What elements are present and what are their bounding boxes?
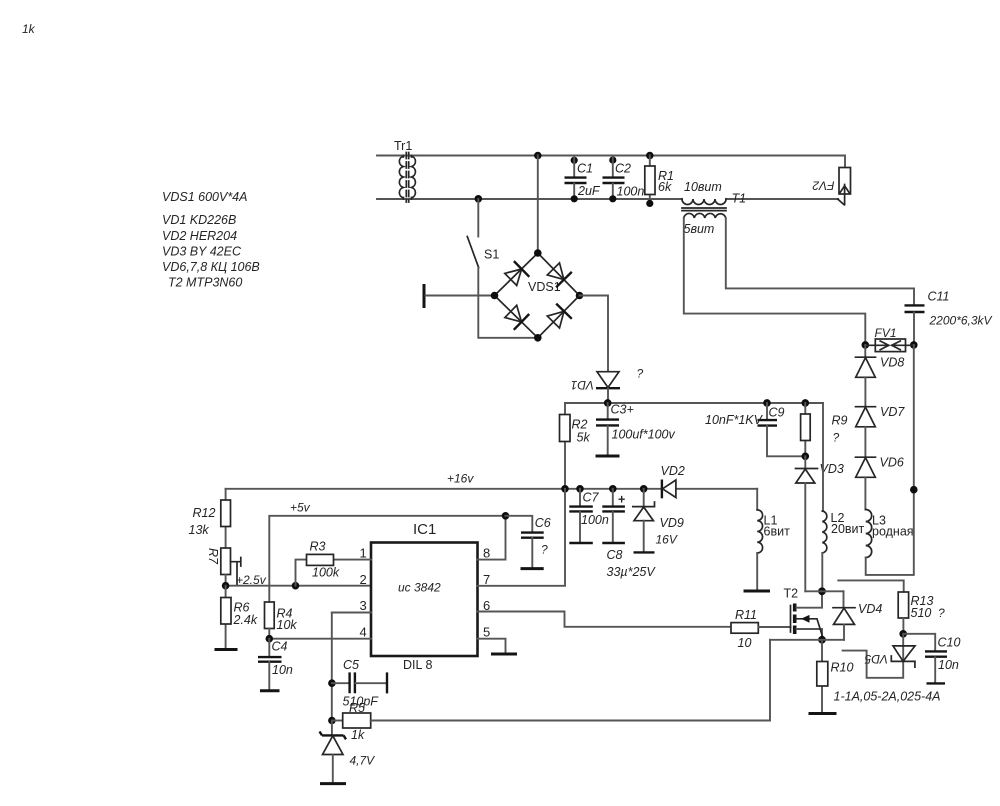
svg-text:13k: 13k bbox=[189, 523, 210, 537]
capacitor C1 bbox=[565, 156, 601, 203]
diode VD1 bbox=[571, 372, 620, 403]
pin 2 bbox=[360, 572, 367, 587]
svg-text:VD5: VD5 bbox=[864, 652, 888, 666]
svg-text:R10: R10 bbox=[831, 661, 854, 675]
svg-text:C6: C6 bbox=[535, 516, 551, 530]
svg-text:+: + bbox=[618, 493, 625, 507]
diode VD3 bbox=[796, 456, 844, 591]
svg-text:родная: родная bbox=[872, 525, 914, 539]
svg-text:R12: R12 bbox=[193, 506, 216, 520]
transformer Tr1 bbox=[394, 139, 415, 202]
svg-text:C9: C9 bbox=[769, 406, 785, 420]
svg-text:C7: C7 bbox=[583, 491, 600, 505]
bridge diode upper-left bbox=[505, 261, 530, 285]
pin 7 wire to +16v bbox=[478, 489, 566, 587]
svg-text:6: 6 bbox=[483, 598, 490, 613]
bridge diode lower-right bbox=[547, 304, 572, 328]
wire +2.5v to pin2 bbox=[222, 573, 371, 590]
svg-text:1k: 1k bbox=[351, 728, 365, 742]
svg-text:5k: 5k bbox=[577, 431, 591, 445]
svg-text:T1: T1 bbox=[732, 192, 747, 206]
svg-text:4: 4 bbox=[360, 625, 367, 640]
ground R6 bbox=[215, 648, 238, 651]
potentiometer R7 bbox=[206, 548, 241, 586]
svg-text:R3: R3 bbox=[310, 540, 326, 554]
note question mark R13 bbox=[938, 606, 945, 620]
svg-text:VD2 HER204: VD2 HER204 bbox=[162, 229, 237, 243]
wire T1 secondary left lead down bbox=[684, 218, 866, 345]
resistor R12 bbox=[189, 489, 231, 548]
svg-text:?: ? bbox=[637, 367, 644, 381]
diode VD8 bbox=[856, 345, 905, 407]
resistor R9 bbox=[801, 403, 848, 460]
wire DC bus node bbox=[565, 399, 823, 407]
svg-text:VD1 KD226B: VD1 KD226B bbox=[162, 213, 236, 227]
svg-text:C1: C1 bbox=[577, 162, 593, 176]
svg-text:20вит: 20вит bbox=[831, 522, 865, 536]
spark gap FV1 bbox=[862, 326, 918, 352]
svg-text:C5: C5 bbox=[343, 658, 359, 672]
svg-text:5вит: 5вит bbox=[684, 222, 715, 236]
svg-text:R9: R9 bbox=[832, 414, 848, 428]
svg-text:R5: R5 bbox=[349, 701, 365, 715]
svg-text:C8: C8 bbox=[607, 548, 623, 562]
node right rail bbox=[910, 486, 918, 494]
diode VD6 bbox=[856, 456, 904, 510]
pin 6 wire bbox=[478, 598, 732, 627]
svg-text:VD1: VD1 bbox=[571, 378, 594, 392]
svg-text:+5v: +5v bbox=[290, 501, 311, 515]
inductor L3 bbox=[866, 510, 914, 558]
zener VD5 4.7V bbox=[320, 721, 376, 783]
resistor R1 bbox=[645, 152, 674, 207]
transistor T2 MOSFET bbox=[784, 587, 823, 640]
ground VD5 bbox=[320, 782, 346, 785]
pin 4 bbox=[269, 625, 371, 640]
svg-text:100n: 100n bbox=[617, 185, 645, 199]
svg-text:7: 7 bbox=[483, 572, 490, 587]
zener VD9 bbox=[633, 489, 684, 553]
arrester FV2 bbox=[812, 156, 850, 205]
resistor R5 bbox=[332, 701, 371, 742]
svg-text:2: 2 bbox=[360, 572, 367, 587]
pin 1 bbox=[334, 546, 372, 561]
inductor L1 bbox=[757, 510, 790, 553]
svg-text:FV1: FV1 bbox=[875, 326, 897, 340]
resistor R13 bbox=[898, 592, 933, 638]
svg-text:?: ? bbox=[541, 543, 548, 557]
svg-text:VD6: VD6 bbox=[880, 456, 904, 470]
ground L1 bbox=[744, 553, 771, 591]
wire AC bottom bbox=[377, 198, 838, 200]
capacitor C9 bbox=[705, 403, 805, 456]
capacitor C10 bbox=[903, 634, 960, 684]
svg-text:VD7: VD7 bbox=[880, 405, 905, 419]
svg-text:10вит: 10вит bbox=[684, 180, 722, 194]
parts list note bbox=[162, 190, 260, 290]
node T2 source bbox=[770, 636, 844, 644]
inductor L2 bbox=[822, 511, 864, 553]
wire L3 bottom to right rail bbox=[866, 345, 914, 575]
svg-text:R7: R7 bbox=[206, 548, 220, 565]
capacitor C8 bbox=[602, 489, 656, 579]
resistor R11 bbox=[731, 608, 791, 650]
resistor R3 bbox=[296, 540, 340, 586]
pin 5 ground bbox=[478, 625, 518, 655]
wire stub to R13 bbox=[838, 580, 903, 592]
T1 core bbox=[682, 208, 726, 211]
terminal bar left bbox=[424, 284, 495, 308]
wire bridge right output bbox=[580, 296, 609, 372]
T1 secondary 5vit bbox=[684, 213, 726, 236]
svg-text:8: 8 bbox=[483, 546, 490, 561]
svg-text:4,7V: 4,7V bbox=[350, 754, 376, 768]
diode VD4 bbox=[833, 591, 882, 640]
svg-text:10n: 10n bbox=[938, 658, 959, 672]
note 1-1A bbox=[834, 690, 941, 704]
svg-text:100k: 100k bbox=[312, 566, 340, 580]
bridge diode upper-right bbox=[547, 263, 572, 287]
IC U1 uc3842 box bbox=[371, 521, 478, 672]
capacitor C2 bbox=[603, 156, 645, 203]
svg-text:2200*6,3kV: 2200*6,3kV bbox=[929, 314, 993, 328]
svg-text:10nF*1KV: 10nF*1KV bbox=[705, 413, 764, 427]
svg-text:+16v: +16v bbox=[447, 472, 474, 486]
svg-text:C2: C2 bbox=[615, 162, 631, 176]
node top wire / bridge tap bbox=[534, 152, 542, 160]
wire top wire to bridge bbox=[537, 156, 539, 254]
resistor R10 bbox=[817, 640, 854, 712]
svg-text:1k: 1k bbox=[22, 22, 36, 36]
diode VD2 bbox=[661, 464, 685, 498]
ground R10 bbox=[809, 712, 837, 715]
svg-text:T2: T2 bbox=[784, 587, 799, 601]
svg-text:R11: R11 bbox=[735, 608, 757, 622]
svg-text:1: 1 bbox=[360, 546, 367, 561]
svg-text:VD3 BY 42EC: VD3 BY 42EC bbox=[162, 245, 242, 259]
capacitor C5 bbox=[332, 658, 387, 709]
svg-text:VD4: VD4 bbox=[858, 602, 882, 616]
note 1k bbox=[22, 22, 36, 36]
resistor R4 bbox=[265, 602, 298, 643]
pin 8 bbox=[478, 516, 506, 561]
svg-text:VD2: VD2 bbox=[661, 464, 685, 478]
svg-text:100uf*100v: 100uf*100v bbox=[612, 428, 676, 442]
svg-text:10: 10 bbox=[738, 636, 752, 650]
pin 3 bbox=[332, 598, 371, 613]
capacitor C3 bbox=[596, 403, 676, 457]
capacitor C11 bbox=[905, 290, 993, 346]
svg-text:S1: S1 bbox=[484, 248, 499, 262]
resistor R2 bbox=[560, 403, 591, 489]
transformer T1 primary 10vit bbox=[682, 180, 746, 206]
switch S1 bbox=[467, 195, 538, 338]
wire pin3 column bbox=[328, 613, 336, 725]
svg-text:C3+: C3+ bbox=[611, 403, 634, 417]
svg-text:5: 5 bbox=[483, 625, 490, 640]
wire T1 secondary right lead to C11 bbox=[726, 218, 914, 305]
svg-text:FV2: FV2 bbox=[812, 179, 834, 193]
wire R5 to current sense bbox=[371, 640, 770, 721]
svg-text:6k: 6k bbox=[658, 180, 672, 194]
svg-text:DIL 8: DIL 8 bbox=[403, 658, 432, 672]
svg-text:100n: 100n bbox=[581, 513, 609, 527]
svg-text:IC1: IC1 bbox=[413, 521, 436, 538]
svg-text:VD6,7,8 КЦ 106В: VD6,7,8 КЦ 106В bbox=[162, 260, 260, 274]
svg-text:16V: 16V bbox=[656, 533, 678, 547]
svg-text:+2.5v: +2.5v bbox=[236, 573, 267, 587]
note question mark VD1 bbox=[637, 367, 644, 381]
svg-text:C4: C4 bbox=[272, 640, 288, 654]
wire +16v rail bbox=[226, 472, 758, 493]
capacitor C7 bbox=[569, 489, 609, 543]
svg-text:2.4k: 2.4k bbox=[233, 613, 258, 627]
wire +5v bbox=[269, 501, 509, 603]
wire L2 bottom to drain node bbox=[821, 553, 823, 591]
thyristor VD5 bbox=[843, 634, 915, 678]
svg-text:VDS1: VDS1 bbox=[528, 280, 561, 294]
bridge diode lower-left bbox=[505, 305, 529, 330]
bridge VDS1 frame bbox=[491, 249, 584, 341]
svg-text:3: 3 bbox=[360, 598, 367, 613]
svg-text:6вит: 6вит bbox=[764, 525, 791, 539]
node T2 drain bbox=[805, 587, 843, 595]
svg-text:T2 MTP3N60: T2 MTP3N60 bbox=[168, 276, 242, 290]
svg-text:1-1A,05-2A,025-4A: 1-1A,05-2A,025-4A bbox=[834, 690, 941, 704]
svg-text:uc 3842: uc 3842 bbox=[398, 581, 441, 595]
svg-text:VD8: VD8 bbox=[880, 356, 904, 370]
svg-text:C10: C10 bbox=[938, 636, 961, 650]
diode VD7 bbox=[856, 405, 906, 457]
svg-text:VDS1 600V*4A: VDS1 600V*4A bbox=[162, 190, 247, 204]
wire L1 top drop bbox=[756, 489, 758, 510]
svg-text:?: ? bbox=[833, 431, 840, 445]
wire L2 top drop bbox=[822, 403, 824, 511]
svg-text:VD9: VD9 bbox=[660, 516, 684, 530]
svg-text:2uF: 2uF bbox=[577, 184, 601, 198]
resistor R6 bbox=[221, 586, 258, 649]
svg-text:C11: C11 bbox=[928, 290, 950, 304]
svg-text:R2: R2 bbox=[572, 418, 588, 432]
svg-text:?: ? bbox=[938, 606, 945, 620]
svg-text:10k: 10k bbox=[277, 618, 298, 632]
capacitor C4 bbox=[258, 639, 293, 691]
capacitor C6 bbox=[506, 516, 551, 569]
svg-text:10n: 10n bbox=[272, 663, 293, 677]
svg-text:33µ*25V: 33µ*25V bbox=[607, 565, 657, 579]
svg-text:Tr1: Tr1 bbox=[394, 139, 412, 153]
svg-text:510: 510 bbox=[911, 606, 932, 620]
wire AC top bbox=[377, 155, 845, 157]
